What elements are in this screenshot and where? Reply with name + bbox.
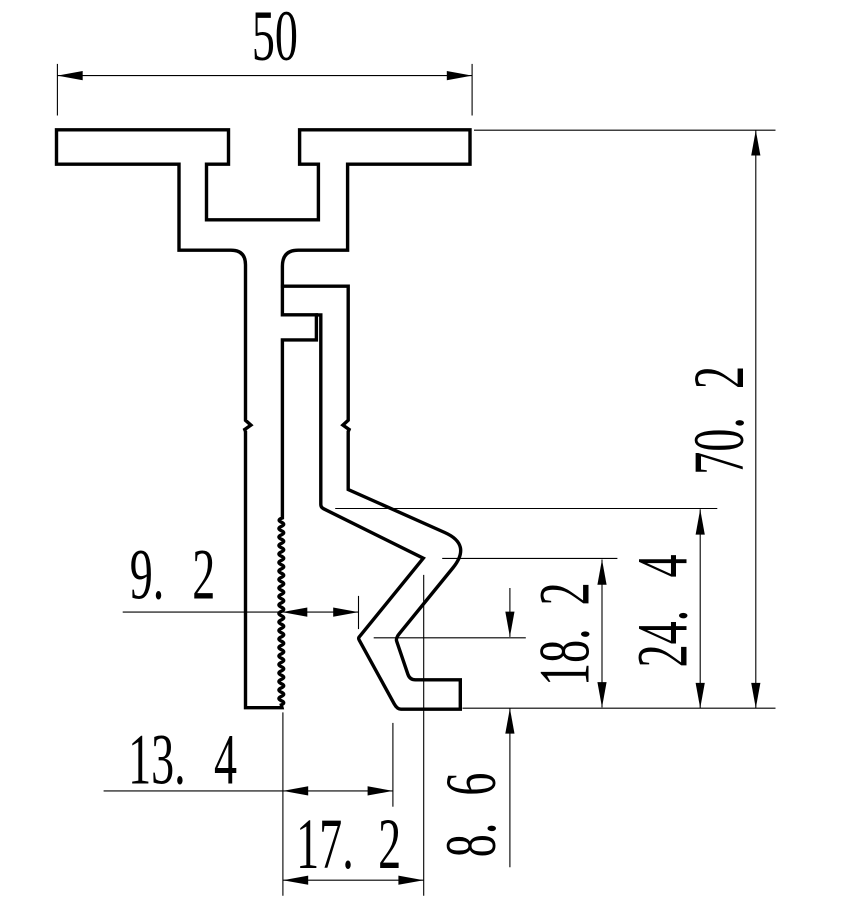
dimension 50: arrowheads [57, 71, 472, 80]
dimension 17.2: arrowheads [283, 876, 424, 885]
dimension 8.6: top extension line [374, 637, 526, 639]
profile right wall with hook arm, barb and foot [281, 286, 461, 709]
dimension 50: right extension line [471, 64, 473, 116]
dimension 8.6: upper arrow line [509, 588, 511, 637]
dimension 13.4: arrowheads [283, 786, 393, 795]
svg-text:24.4: 24.4 [624, 554, 704, 667]
svg-text:70.2: 70.2 [680, 366, 760, 475]
dimension 70.2: arrowheads [751, 130, 760, 708]
svg-text:17.2: 17.2 [296, 805, 401, 885]
dimension 24.4: top extension line [335, 508, 717, 510]
dimension 18.2: arrowheads [597, 560, 606, 708]
dimension 9.2: dimension line with text leader [123, 611, 359, 613]
dimension 24.4: dimension line [699, 509, 701, 708]
dimension 50: left extension line [56, 64, 58, 116]
dimension 17.2: dimension line [283, 879, 424, 881]
dimension 13.4: dimension line with text leader [104, 790, 393, 792]
dimension 18.2: top extension line [442, 557, 617, 559]
dimension 8.6: lower arrow line [509, 708, 511, 867]
svg-text:50: 50 [252, 0, 298, 77]
dimension 17.2: right extension line [423, 575, 425, 896]
dimension 9.2: arrowheads [282, 608, 359, 617]
dimension 9.2: right extension line [358, 596, 360, 629]
dimension 24.4: arrowheads [696, 509, 705, 708]
dimension 50: dimension line [57, 75, 472, 77]
dimension 70.2: top extension line [474, 129, 776, 131]
dimension 18.2: dimension line [601, 560, 603, 708]
dimension 13.4: right extension line [392, 723, 394, 807]
profile main body outline: top flanges, T-slot, left shoulder, stem with serrated edge and snap-off tab [57, 130, 471, 708]
svg-text:13.4: 13.4 [128, 721, 237, 801]
shared bottom extension line (70.2 / 24.4 / 18.2 / 8.6) [463, 707, 776, 709]
dimension 70.2: dimension line [755, 130, 757, 708]
svg-text:18.2: 18.2 [525, 582, 605, 686]
shared left extension line (13.4 / 17.2) [282, 712, 284, 895]
dimension 8.6: arrowheads [505, 612, 514, 734]
